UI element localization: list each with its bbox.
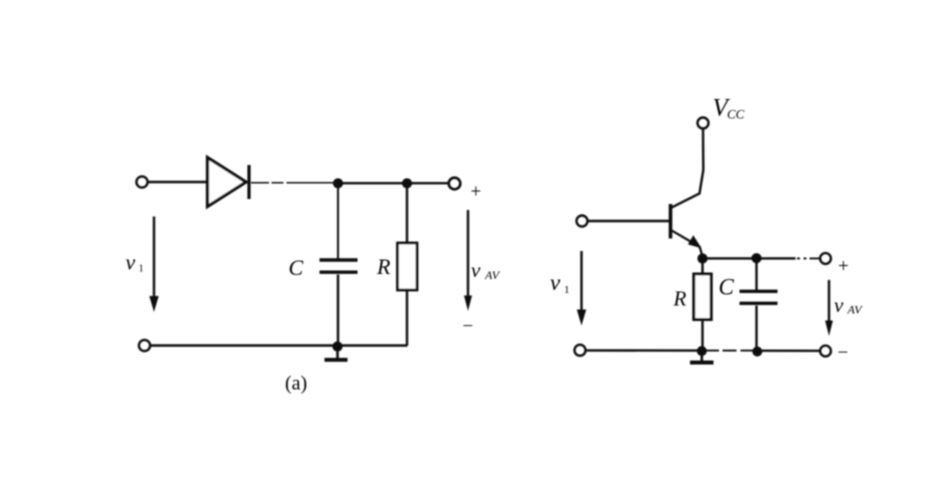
svg-text:C: C — [719, 275, 735, 300]
svg-text:R: R — [376, 254, 391, 279]
svg-text:v: v — [126, 250, 136, 275]
svg-text:v: v — [550, 270, 561, 295]
svg-text:−: − — [838, 343, 849, 364]
svg-text:1: 1 — [564, 284, 570, 296]
svg-text:AV: AV — [484, 268, 501, 282]
svg-text:CC: CC — [727, 107, 745, 122]
svg-text:+: + — [838, 256, 849, 277]
svg-text:AV: AV — [847, 303, 864, 317]
svg-text:−: − — [463, 316, 474, 337]
svg-text:R: R — [673, 287, 687, 311]
svg-text:(a): (a) — [285, 373, 307, 395]
svg-text:C: C — [289, 255, 304, 280]
svg-text:v: v — [834, 293, 844, 317]
svg-text:v: v — [471, 258, 481, 282]
svg-text:1: 1 — [139, 264, 144, 275]
svg-text:+: + — [471, 182, 482, 203]
